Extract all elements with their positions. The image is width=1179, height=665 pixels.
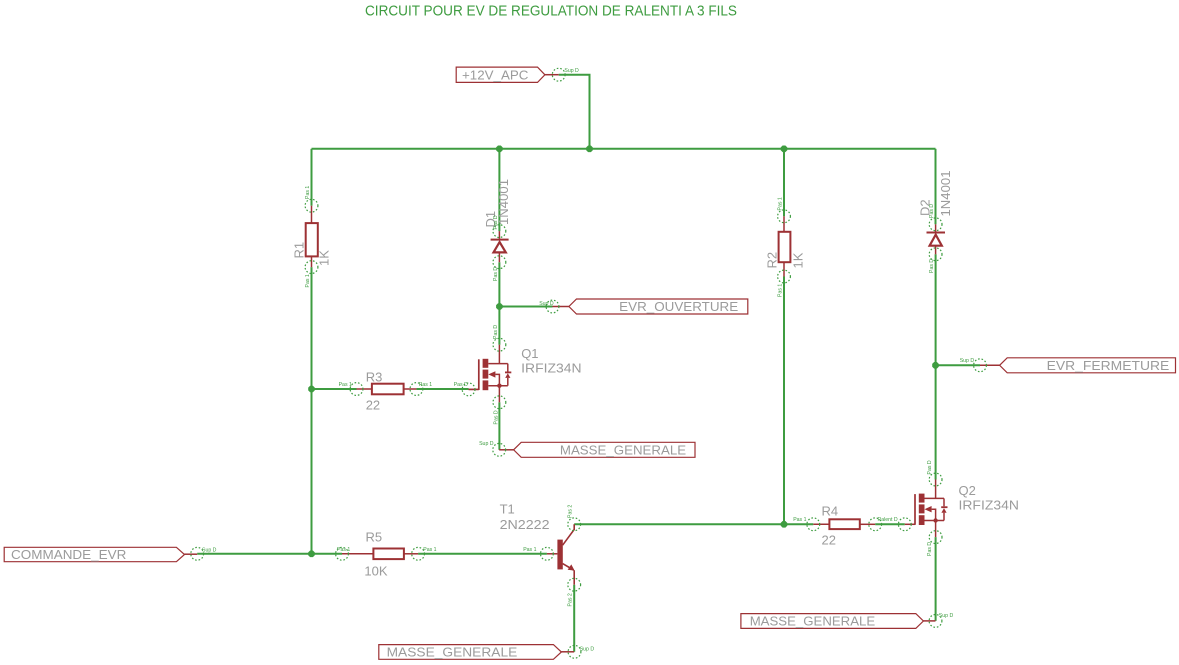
svg-text:Pas 1: Pas 1 (778, 197, 784, 210)
svg-text:Pas D: Pas D (927, 542, 933, 556)
svg-text:Sup D: Sup D (960, 358, 975, 364)
svg-text:IRFIZ34N: IRFIZ34N (521, 361, 581, 376)
svg-text:R2: R2 (765, 252, 780, 269)
svg-text:Pas D: Pas D (929, 204, 935, 218)
svg-text:Pas 1: Pas 1 (419, 382, 432, 388)
svg-text:Q2: Q2 (959, 483, 976, 498)
svg-text:Pas D: Pas D (454, 382, 468, 388)
svg-text:COMMANDE_EVR: COMMANDE_EVR (11, 547, 126, 562)
svg-text:1K: 1K (317, 250, 332, 266)
svg-text:Pas 1: Pas 1 (423, 547, 436, 553)
svg-text:Sup D: Sup D (539, 301, 554, 307)
svg-text:MASSE_GENERALE: MASSE_GENERALE (560, 443, 686, 458)
svg-text:IRFIZ34N: IRFIZ34N (959, 498, 1019, 513)
svg-text:Sup D: Sup D (202, 548, 217, 554)
svg-text:Pas 1: Pas 1 (305, 274, 311, 287)
svg-text:Q1: Q1 (521, 346, 538, 361)
svg-text:Ralent D: Ralent D (878, 517, 898, 523)
svg-text:Sup D: Sup D (939, 613, 954, 619)
svg-text:Pas D: Pas D (493, 267, 499, 281)
svg-text:Pas 1: Pas 1 (523, 547, 536, 553)
svg-text:Pas 1: Pas 1 (337, 547, 350, 553)
svg-text:Pas 2: Pas 2 (568, 505, 574, 518)
svg-text:CIRCUIT POUR EV DE REGULATION: CIRCUIT POUR EV DE REGULATION DE RALENTI… (365, 2, 737, 19)
svg-text:Pas D: Pas D (493, 215, 499, 229)
svg-text:T1: T1 (500, 502, 515, 517)
svg-text:Sup D: Sup D (580, 646, 595, 652)
svg-text:Pas D: Pas D (494, 410, 500, 424)
svg-text:EVR_OUVERTURE: EVR_OUVERTURE (619, 299, 738, 314)
svg-text:Pas 1: Pas 1 (305, 186, 311, 199)
svg-text:22: 22 (822, 533, 836, 548)
svg-text:Pas 1: Pas 1 (339, 382, 352, 388)
svg-text:MASSE_GENERALE: MASSE_GENERALE (387, 645, 518, 660)
svg-text:Pas 2: Pas 2 (568, 593, 574, 606)
svg-text:2N2222: 2N2222 (500, 517, 550, 532)
svg-text:Pas 1: Pas 1 (793, 517, 806, 523)
svg-text:Pas D: Pas D (927, 460, 933, 474)
svg-text:R4: R4 (822, 504, 839, 519)
svg-text:Sup D: Sup D (564, 68, 579, 74)
svg-text:Sup D: Sup D (479, 441, 494, 447)
svg-text:MASSE_GENERALE: MASSE_GENERALE (750, 614, 876, 629)
svg-text:Pas D: Pas D (493, 325, 499, 339)
svg-text:Pas D: Pas D (929, 259, 935, 273)
svg-text:Pas 1: Pas 1 (778, 284, 784, 297)
svg-text:R5: R5 (366, 530, 383, 545)
svg-text:+12V_APC: +12V_APC (462, 67, 529, 82)
svg-text:EVR_FERMETURE: EVR_FERMETURE (1047, 358, 1170, 373)
svg-text:R1: R1 (292, 242, 307, 259)
svg-text:1K: 1K (791, 252, 806, 268)
svg-text:R3: R3 (366, 370, 383, 385)
svg-text:1N4001: 1N4001 (938, 171, 953, 217)
svg-text:22: 22 (366, 398, 380, 413)
svg-text:10K: 10K (364, 564, 387, 579)
